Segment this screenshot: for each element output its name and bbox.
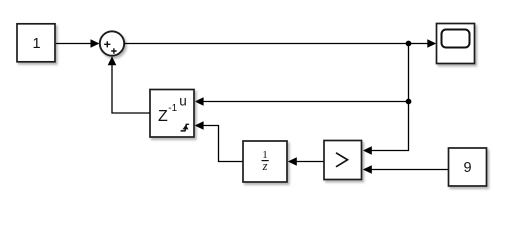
wire constant1 to sum bbox=[56, 39, 100, 48]
sum block (Add, circle) bbox=[100, 31, 124, 55]
relational operator block ">" bbox=[324, 141, 362, 180]
reset trigger icon (rising edge) bbox=[181, 124, 190, 131]
wire constant9 to relational operator bottom input bbox=[363, 165, 449, 174]
scope block bbox=[437, 24, 475, 64]
wire unit delay output to delay reset input bbox=[195, 121, 243, 161]
wire junction down to relational operator top input bbox=[363, 44, 409, 155]
svg-text:-1: -1 bbox=[168, 103, 177, 114]
plus sign for bottom input bbox=[111, 48, 116, 53]
junction node dot (top, to scope line) bbox=[406, 41, 412, 47]
svg-text:z: z bbox=[262, 159, 268, 173]
svg-text:Z: Z bbox=[158, 108, 168, 125]
delay block Z^-1 (Delay with external reset) bbox=[150, 90, 194, 138]
wire delay output to sum bottom input bbox=[108, 56, 150, 113]
plus sign for left input bbox=[104, 41, 110, 47]
constant block "1" (Constant) bbox=[17, 24, 55, 62]
svg-text:u: u bbox=[179, 93, 187, 108]
wire sum to scope bbox=[124, 39, 436, 48]
svg-text:9: 9 bbox=[463, 160, 471, 176]
wire junction to delay u input bbox=[195, 97, 409, 106]
svg-text:1: 1 bbox=[32, 36, 40, 52]
constant block "9" (Constant1) bbox=[449, 148, 487, 186]
junction node dot (middle, branch to delay u input) bbox=[406, 99, 412, 105]
wire relational operator output to unit delay input bbox=[288, 157, 324, 166]
unit delay block 1/z bbox=[243, 141, 287, 182]
